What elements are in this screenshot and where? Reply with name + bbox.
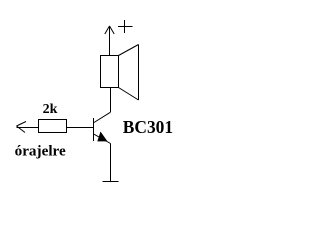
wire collector to speaker [94, 88, 111, 123]
wire emitter down [110, 144, 112, 182]
svg-text:BC301: BC301 [123, 117, 173, 137]
svg-text:órajelre: órajelre [15, 143, 66, 160]
plus supply symbol [118, 20, 133, 33]
svg-text:2k: 2k [43, 102, 58, 117]
emitter arrow [97, 132, 107, 142]
supply arrow [105, 26, 114, 56]
ground [103, 181, 119, 183]
resistor R1 [39, 120, 67, 133]
wire input to resistor [17, 127, 39, 129]
wire resistor to base [67, 127, 94, 129]
transistor emitter line [94, 134, 111, 143]
transistor Q1 BC301 base bar [93, 118, 95, 141]
speaker LS1 [101, 45, 139, 101]
input arrow head [17, 122, 27, 133]
